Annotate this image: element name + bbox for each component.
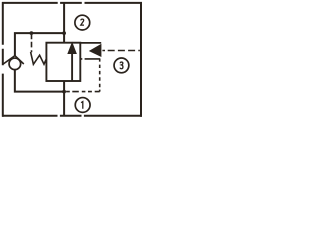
node junction dot at port 1 branch bbox=[62, 90, 66, 94]
relief valve V1 body bbox=[46, 43, 80, 81]
pilot line (dashed) from V1 right side, top run bbox=[80, 58, 100, 60]
envelope bottom border bbox=[2, 115, 142, 117]
wire check valve bottom to port 1 branch bbox=[15, 70, 64, 92]
node junction dot at port 2 branch bbox=[62, 31, 66, 35]
port 3 digit bbox=[120, 62, 123, 69]
pilot assist triangle (solid) bbox=[89, 44, 102, 57]
pilot line (dashed) bottom run to port 1 branch bbox=[66, 91, 100, 93]
port 1 label circle bbox=[75, 98, 90, 113]
flow arrow stem inside V1 bbox=[71, 52, 73, 81]
check valve CV1 ball bbox=[9, 58, 21, 70]
port 2 label circle bbox=[75, 15, 90, 30]
wire valve V1 bottom to port 1 bbox=[63, 81, 65, 116]
pilot line (dashed) from triangle to port 3 bbox=[102, 50, 139, 52]
envelope right border bbox=[140, 2, 142, 117]
wire branch to check valve top bbox=[15, 33, 64, 56]
pilot line (dashed) vertical run bbox=[99, 59, 101, 92]
node junction dot at spring pilot tap bbox=[30, 31, 34, 35]
flow arrow head inside V1 bbox=[67, 42, 77, 54]
port 1 digit bbox=[81, 102, 83, 109]
pilot line (dashed) from port 2 branch to spring side bbox=[31, 35, 33, 52]
check valve CV1 seat bbox=[3, 56, 23, 64]
pilot assist connector line bbox=[80, 42, 101, 44]
spring of V1 bbox=[31, 52, 47, 64]
port 2 digit bbox=[81, 19, 84, 25]
envelope top border bbox=[2, 2, 142, 4]
port 3 label circle bbox=[114, 58, 129, 73]
wire port 2 to valve V1 top bbox=[63, 3, 65, 43]
envelope left border bbox=[2, 2, 4, 117]
